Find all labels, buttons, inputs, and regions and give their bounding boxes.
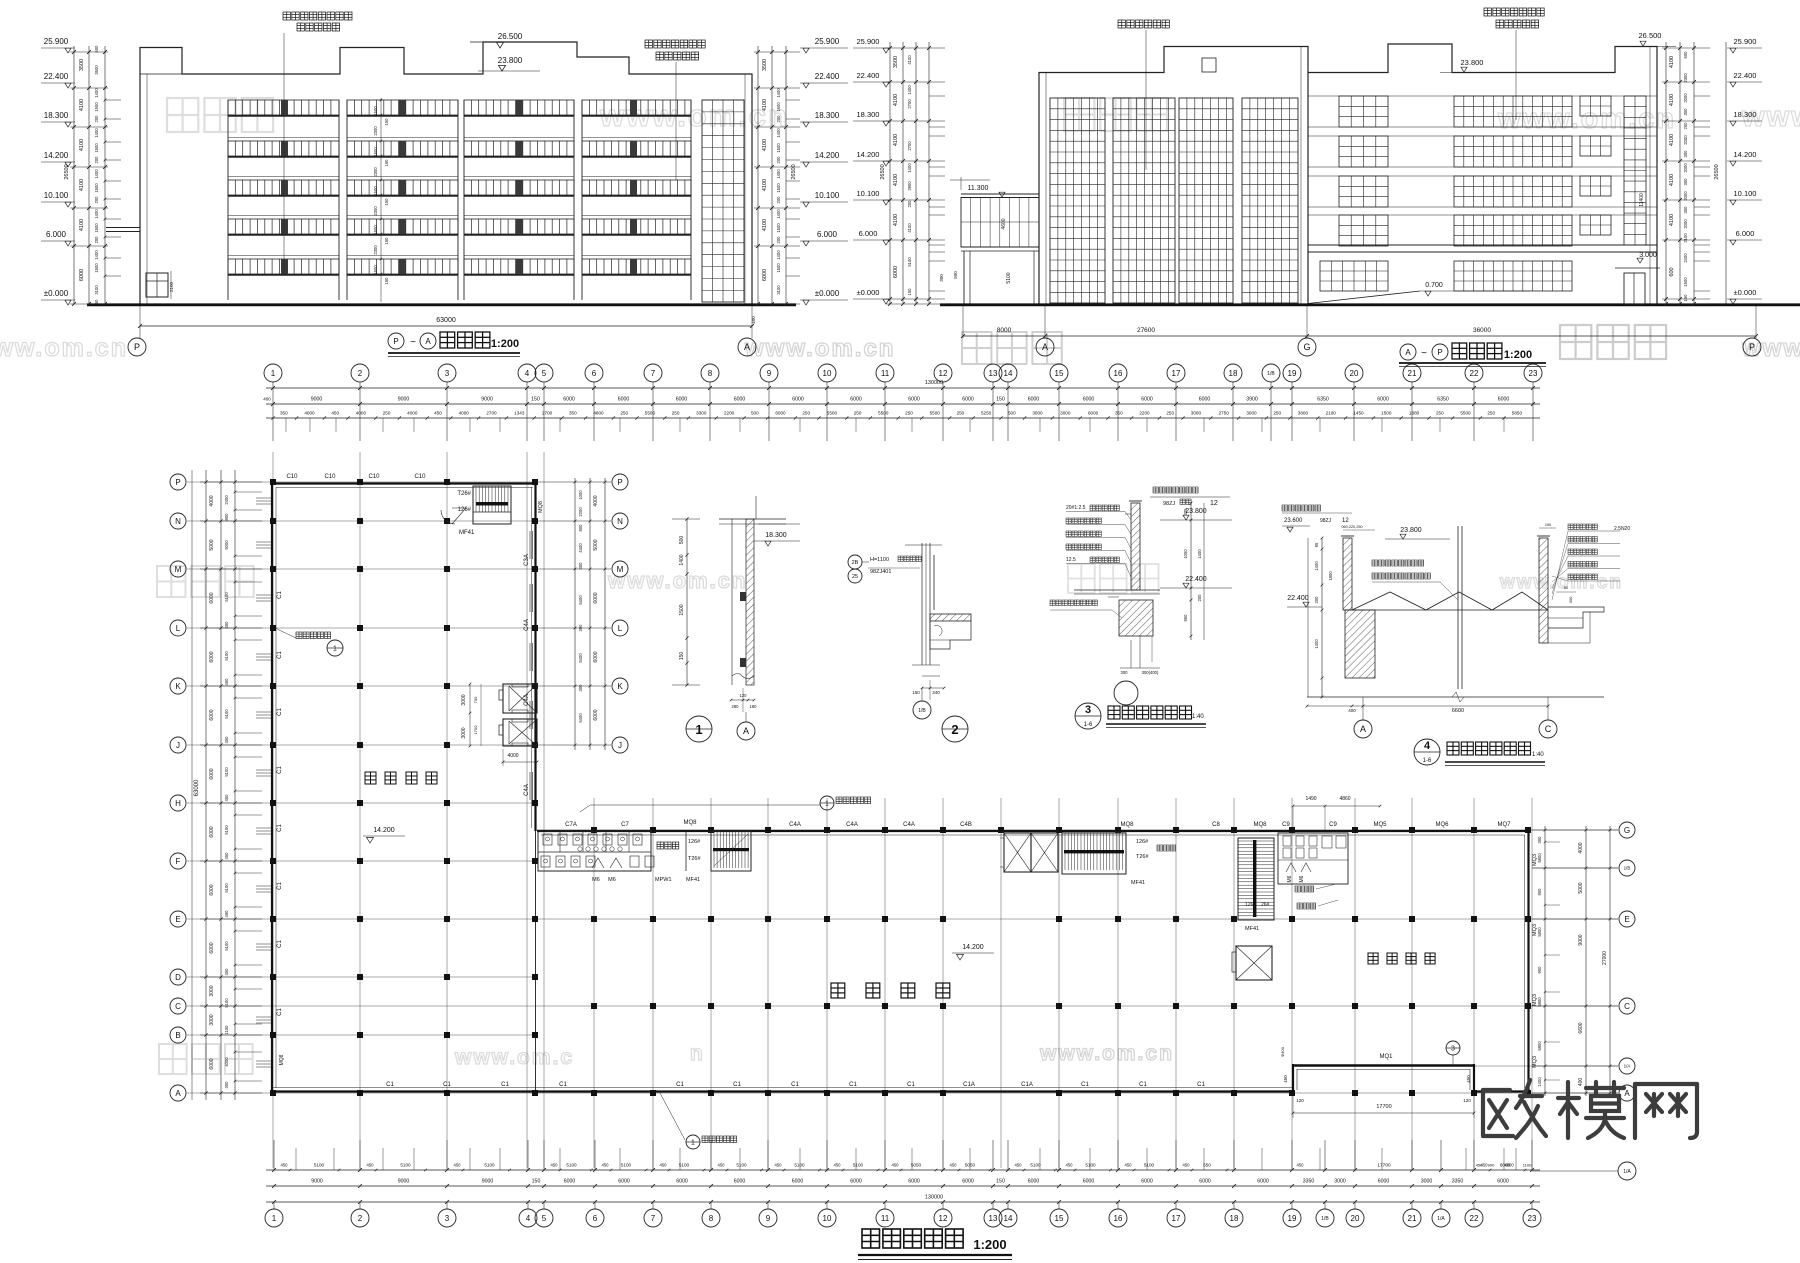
svg-text:280: 280 (732, 704, 740, 709)
svg-text:C9: C9 (1282, 822, 1290, 828)
svg-text:6000: 6000 (676, 397, 688, 403)
svg-text:150: 150 (384, 198, 389, 206)
svg-text:450: 450 (602, 1163, 610, 1168)
plan axis horizontal lines left wing (187, 481, 537, 483)
svg-text:450: 450 (224, 678, 229, 686)
svg-text:18: 18 (1229, 369, 1238, 378)
svg-text:5100: 5100 (736, 1163, 747, 1168)
svg-text:6000: 6000 (618, 397, 630, 403)
svg-text:Φ400: Φ400 (1280, 1046, 1285, 1057)
svg-text:5800: 5800 (1537, 1041, 1542, 1051)
production building text bottom wing left (831, 983, 845, 998)
svg-text:22: 22 (1470, 1214, 1479, 1223)
svg-text:3: 3 (1085, 704, 1091, 716)
svg-text:300: 300 (1683, 178, 1688, 186)
svg-text:23.800: 23.800 (1461, 58, 1484, 67)
plan axis row G (537, 829, 1618, 831)
svg-text:250: 250 (905, 411, 913, 416)
svg-text:6: 6 (593, 1214, 598, 1223)
svg-text:C1: C1 (1081, 1082, 1089, 1088)
svg-text:25.900: 25.900 (815, 37, 840, 46)
svg-text:11: 11 (881, 1214, 890, 1223)
svg-text:6000: 6000 (734, 397, 746, 403)
left wing right-side mini dim stack (574, 478, 576, 750)
svg-text:A: A (425, 337, 431, 346)
svg-text:1500: 1500 (776, 183, 781, 193)
detail 4 right wall (1539, 538, 1548, 643)
svg-text:J: J (176, 741, 180, 750)
svg-text:MQ3: MQ3 (1532, 924, 1538, 936)
svg-text:1400: 1400 (94, 209, 99, 219)
svg-text:www.om.cn: www.om.cn (744, 335, 895, 362)
detail 3 title (1075, 703, 1101, 729)
svg-text:3000: 3000 (1421, 1179, 1433, 1185)
svg-text:10.100: 10.100 (857, 189, 880, 198)
svg-text:10.100: 10.100 (1734, 189, 1757, 198)
svg-text:C1: C1 (849, 1082, 857, 1088)
svg-text:C: C (1545, 724, 1552, 734)
svg-text:4100: 4100 (893, 214, 899, 226)
svg-text:700: 700 (473, 696, 478, 703)
svg-text:18: 18 (1230, 1214, 1239, 1223)
svg-text:D: D (175, 973, 181, 982)
svg-text:C10: C10 (368, 474, 380, 480)
axis circle A right elevation (1036, 338, 1054, 356)
svg-text:5100: 5100 (484, 1163, 495, 1168)
svg-text:6000: 6000 (593, 592, 599, 603)
svg-text:6000: 6000 (792, 397, 804, 403)
svg-text:2200: 2200 (578, 507, 583, 517)
svg-text:MPW1: MPW1 (655, 877, 672, 883)
svg-text:3000: 3000 (1191, 411, 1202, 416)
stair right of toilets (711, 831, 751, 871)
axis 1/A circle far right bottom (1532, 1170, 1618, 1172)
svg-text:2B: 2B (852, 560, 859, 566)
svg-text:5500: 5500 (1460, 411, 1471, 416)
svg-text:4100: 4100 (762, 219, 768, 231)
svg-text:1400: 1400 (1197, 549, 1202, 559)
svg-text:400: 400 (1348, 708, 1356, 713)
svg-text:36000: 36000 (1473, 327, 1491, 334)
right elevation A~P curtain-wall tower outline (1039, 47, 1308, 305)
svg-text:500: 500 (1008, 411, 1016, 416)
plan left axis circles (170, 474, 186, 490)
svg-text:K: K (175, 682, 181, 691)
svg-text:150: 150 (531, 397, 540, 403)
svg-text:9000: 9000 (398, 1179, 410, 1185)
svg-text:9: 9 (767, 369, 772, 378)
svg-text:25.900: 25.900 (857, 37, 880, 46)
svg-text:5100: 5100 (566, 1163, 577, 1168)
svg-text:1400: 1400 (1314, 561, 1319, 571)
svg-text:6.000: 6.000 (817, 230, 838, 239)
svg-text:150: 150 (912, 690, 920, 695)
svg-text:C4B: C4B (960, 822, 972, 828)
svg-text:MF41: MF41 (1131, 880, 1145, 886)
svg-text:2200: 2200 (724, 411, 735, 416)
svg-text:C1: C1 (559, 1082, 567, 1088)
svg-text:9000: 9000 (481, 397, 493, 403)
wall inner face lines plan (275, 487, 277, 1088)
svg-text:1:200: 1:200 (491, 338, 519, 350)
right building ground floor windows (1320, 261, 1388, 291)
svg-text:5500: 5500 (827, 411, 838, 416)
row A south wall west segment (272, 1090, 1294, 1092)
svg-text:1400: 1400 (907, 163, 912, 173)
svg-text:P: P (175, 478, 180, 487)
svg-text:C7A: C7A (565, 822, 577, 828)
svg-text:5400: 5400 (578, 713, 583, 723)
svg-text:1: 1 (271, 369, 276, 378)
svg-text:6000: 6000 (775, 411, 786, 416)
svg-text:3500: 3500 (94, 65, 99, 75)
svg-text:18.300: 18.300 (815, 111, 840, 120)
svg-text:MQ8: MQ8 (538, 501, 544, 513)
svg-text:C1: C1 (1139, 1082, 1147, 1088)
svg-text:98ZJ: 98ZJ (1163, 501, 1175, 507)
plan title 4th floor plan 1:200 (862, 1229, 880, 1248)
svg-text:6000: 6000 (1199, 397, 1211, 403)
svg-text:11: 11 (881, 369, 890, 378)
svg-text:4100: 4100 (907, 223, 912, 233)
svg-text:900: 900 (1537, 888, 1542, 896)
svg-text:200: 200 (94, 115, 99, 123)
svg-text:21: 21 (1408, 369, 1417, 378)
svg-text:26#: 26# (1261, 902, 1270, 908)
svg-text:1500: 1500 (776, 223, 781, 233)
svg-text:300: 300 (578, 684, 583, 692)
svg-text:5100: 5100 (224, 998, 229, 1008)
svg-text:6000: 6000 (209, 651, 215, 662)
svg-text:300: 300 (578, 624, 583, 632)
svg-text:1400: 1400 (94, 169, 99, 179)
svg-text:6000: 6000 (1083, 397, 1095, 403)
svg-text:120: 120 (740, 693, 748, 698)
svg-text:180: 180 (750, 704, 758, 709)
svg-text:3000: 3000 (209, 985, 215, 996)
svg-text:M6: M6 (592, 877, 600, 883)
title A~P elevation 1:200 (1400, 344, 1416, 360)
svg-text:3000: 3000 (1334, 1179, 1346, 1185)
svg-text:150: 150 (996, 397, 1005, 403)
svg-text:C1: C1 (277, 708, 283, 716)
svg-text:C1: C1 (386, 1082, 394, 1088)
svg-text:450: 450 (1297, 1163, 1305, 1168)
left elevation bottom dimension 63000 (139, 306, 141, 338)
svg-text:3900: 3900 (1246, 397, 1258, 403)
svg-text:6000: 6000 (1028, 397, 1040, 403)
svg-text:C1: C1 (733, 1082, 741, 1088)
svg-text:5000: 5000 (224, 540, 229, 550)
svg-text:3: 3 (445, 369, 450, 378)
svg-text:6000: 6000 (79, 269, 85, 281)
svg-text:1500: 1500 (373, 106, 378, 116)
svg-text:450: 450 (834, 1163, 842, 1168)
svg-text:2700: 2700 (542, 411, 553, 416)
svg-text:250: 250 (672, 411, 680, 416)
svg-text:1-6: 1-6 (1084, 722, 1093, 728)
room 126 with doors (710, 831, 712, 871)
svg-text:800: 800 (578, 524, 583, 532)
right side dim stack bottom wing (1544, 826, 1546, 1096)
svg-text:C4A: C4A (903, 822, 915, 828)
svg-text:19: 19 (1288, 1214, 1297, 1223)
svg-text:200: 200 (94, 196, 99, 204)
axis circle P left elevation (128, 338, 146, 356)
svg-text:6000: 6000 (893, 266, 899, 278)
svg-text:C7: C7 (621, 822, 629, 828)
svg-text:4100: 4100 (79, 139, 85, 151)
ramp 0.700 (1308, 291, 1420, 304)
svg-text:5100: 5100 (224, 592, 229, 602)
svg-text:22.400: 22.400 (815, 72, 840, 81)
svg-text:A: A (743, 726, 749, 736)
axis circle A left elevation (738, 338, 756, 356)
svg-text:300: 300 (1568, 596, 1573, 603)
svg-text:1500: 1500 (94, 263, 99, 273)
svg-text:6.000: 6.000 (859, 229, 878, 238)
svg-text:6000: 6000 (618, 1179, 630, 1185)
svg-text:340: 340 (932, 690, 940, 695)
svg-text:10.100: 10.100 (44, 191, 69, 200)
svg-text:1500: 1500 (94, 223, 99, 233)
svg-text:4100: 4100 (893, 134, 899, 146)
svg-text:M: M (617, 565, 624, 574)
detail 3 parapet 1 (1153, 487, 1159, 493)
svg-text:200: 200 (1314, 596, 1319, 604)
svg-text:2: 2 (358, 369, 363, 378)
svg-text:1:200: 1:200 (973, 1237, 1006, 1252)
svg-text:350: 350 (280, 411, 288, 416)
svg-text:3000: 3000 (1032, 411, 1043, 416)
svg-text:1/B: 1/B (1267, 371, 1275, 377)
svg-text:400: 400 (1578, 1078, 1584, 1087)
stair C (right cluster) (1238, 838, 1274, 920)
bottom grid tick tails up (273, 1140, 275, 1170)
left elevation inner face lines (146, 74, 148, 304)
svg-text:27600: 27600 (1137, 327, 1155, 334)
svg-text:5850: 5850 (1512, 411, 1523, 416)
left elevation ground line (87, 303, 796, 306)
svg-text:1343: 1343 (514, 411, 525, 416)
svg-text:23.800: 23.800 (498, 56, 523, 65)
svg-text:4000: 4000 (356, 411, 367, 416)
svg-text:±0.000: ±0.000 (44, 289, 69, 298)
svg-text:C3A: C3A (524, 554, 530, 566)
right elevation glass panels (1050, 98, 1105, 303)
svg-text:1500: 1500 (94, 102, 99, 112)
left wing outer walls (271, 482, 273, 1093)
svg-text:~: ~ (1421, 348, 1427, 359)
label blue coated glass (1118, 20, 1125, 28)
svg-text:14.200: 14.200 (815, 151, 840, 160)
svg-text:5100: 5100 (224, 709, 229, 719)
top grid tick tails (272, 418, 274, 441)
svg-text:1500: 1500 (776, 102, 781, 112)
detail 1 wall section (719, 518, 786, 520)
svg-text:400: 400 (751, 316, 756, 324)
svg-text:450: 450 (660, 1163, 668, 1168)
svg-text:2000: 2000 (1683, 135, 1688, 145)
svg-text:1100: 1100 (1523, 1163, 1532, 1168)
svg-text:G: G (1624, 826, 1630, 835)
svg-text:5100: 5100 (400, 1163, 411, 1168)
svg-text:20: 20 (1351, 1214, 1360, 1223)
svg-text:200: 200 (94, 156, 99, 164)
svg-text:250: 250 (1166, 411, 1174, 416)
svg-text:450: 450 (331, 411, 339, 416)
axis circle P right elevation (1743, 338, 1761, 356)
svg-text:450: 450 (281, 1163, 289, 1168)
svg-text:9000: 9000 (311, 397, 323, 403)
svg-text:22.400: 22.400 (857, 71, 880, 80)
svg-text:17700: 17700 (1376, 1104, 1391, 1110)
svg-text:450: 450 (1066, 1163, 1074, 1168)
svg-text:C4A: C4A (524, 784, 530, 796)
svg-text:C1: C1 (791, 1082, 799, 1088)
svg-text:3100: 3100 (94, 285, 99, 295)
svg-text:1500: 1500 (373, 265, 378, 275)
svg-text:3500: 3500 (762, 59, 768, 71)
svg-text:4: 4 (525, 369, 530, 378)
svg-text:5100: 5100 (1144, 1163, 1155, 1168)
svg-text:16: 16 (1114, 1214, 1123, 1223)
svg-text:6000: 6000 (209, 826, 215, 837)
svg-text:25.900: 25.900 (44, 37, 69, 46)
svg-text:250: 250 (957, 411, 965, 416)
svg-text:A: A (1360, 724, 1366, 734)
svg-text:1700: 1700 (473, 725, 478, 735)
production building text bottom wing right (1368, 953, 1378, 964)
svg-text:200: 200 (907, 200, 912, 208)
svg-text:15: 15 (1055, 369, 1064, 378)
svg-text:3000: 3000 (1060, 411, 1071, 416)
svg-text:2300: 2300 (373, 126, 378, 136)
svg-text:5100: 5100 (621, 1163, 632, 1168)
svg-text:1450: 1450 (1353, 411, 1364, 416)
svg-text:26.500: 26.500 (498, 32, 523, 41)
svg-text:±0.000: ±0.000 (815, 289, 840, 298)
svg-text:14.200: 14.200 (1734, 150, 1757, 159)
svg-text:6000: 6000 (1028, 1179, 1040, 1185)
svg-text:6000: 6000 (209, 1058, 215, 1069)
svg-text:~: ~ (410, 337, 416, 348)
svg-text:4: 4 (1424, 740, 1431, 752)
svg-text:2700: 2700 (907, 99, 912, 109)
svg-text:N: N (175, 517, 181, 526)
svg-text:1: 1 (333, 646, 337, 653)
svg-text:300: 300 (578, 562, 583, 570)
svg-text:MQ8: MQ8 (279, 1054, 285, 1065)
svg-text:1/A: 1/A (1437, 1216, 1445, 1222)
svg-text:450: 450 (224, 621, 229, 629)
svg-text:150: 150 (907, 288, 912, 296)
svg-text:6000: 6000 (762, 269, 768, 281)
svg-text:300: 300 (939, 274, 944, 282)
svg-text:C1: C1 (277, 591, 283, 599)
right toilets C9 (1278, 833, 1348, 884)
svg-text:200: 200 (776, 156, 781, 164)
svg-text:126#: 126# (1245, 902, 1256, 908)
svg-text:MQ8: MQ8 (1120, 822, 1134, 828)
svg-text:16: 16 (1114, 369, 1123, 378)
bottom grid dimension lines (266, 1169, 1540, 1171)
svg-text:300: 300 (1683, 150, 1688, 158)
svg-text:5100: 5100 (314, 1163, 325, 1168)
stair north-east of left wing (473, 486, 511, 524)
svg-text:1500: 1500 (94, 143, 99, 153)
svg-text:MQ6: MQ6 (1435, 822, 1449, 828)
svg-text:4000: 4000 (224, 1057, 229, 1067)
svg-text:5500: 5500 (930, 411, 941, 416)
svg-text:C10: C10 (324, 474, 336, 480)
svg-text:9: 9 (766, 1214, 771, 1223)
svg-text:25.900: 25.900 (1734, 37, 1757, 46)
svg-text:M6: M6 (1299, 875, 1305, 882)
svg-text:6000: 6000 (962, 1179, 974, 1185)
svg-text:300: 300 (224, 1081, 229, 1089)
svg-text:1500: 1500 (776, 143, 781, 153)
svg-text:95: 95 (1314, 542, 1319, 547)
svg-text:22: 22 (1470, 369, 1479, 378)
svg-text:P: P (1437, 348, 1442, 357)
svg-text:1500: 1500 (373, 147, 378, 157)
svg-text:12: 12 (1342, 518, 1349, 524)
window detail callout above wing (590, 804, 820, 806)
svg-text:5100: 5100 (224, 767, 229, 777)
svg-text:50: 50 (1564, 585, 1569, 590)
svg-text:126#: 126# (1136, 839, 1149, 845)
svg-text:C: C (175, 1002, 181, 1011)
svg-text:4000: 4000 (407, 411, 418, 416)
svg-text:17700: 17700 (1377, 1163, 1391, 1169)
window detail callout in left wing (275, 628, 296, 638)
svg-text:M6: M6 (1287, 875, 1293, 882)
svg-text:26500: 26500 (1714, 164, 1720, 179)
svg-text:2400: 2400 (1683, 253, 1688, 263)
svg-text:150: 150 (679, 652, 685, 661)
svg-text:N: N (617, 517, 623, 526)
svg-text:1500: 1500 (373, 225, 378, 235)
svg-text:8000: 8000 (997, 327, 1012, 334)
svg-text:1:40: 1:40 (1532, 752, 1544, 758)
detail 4 title (1414, 739, 1440, 765)
svg-text:C1: C1 (277, 882, 283, 890)
svg-text:4860: 4860 (1339, 796, 1350, 802)
bottom axis circles 1-23 (265, 1209, 283, 1227)
svg-text:4800: 4800 (593, 411, 604, 416)
svg-text:MF41: MF41 (459, 530, 475, 536)
svg-text:450: 450 (454, 1163, 462, 1168)
svg-text:5100: 5100 (794, 1163, 805, 1168)
svg-text:F: F (176, 857, 181, 866)
svg-text:250: 250 (1436, 411, 1444, 416)
svg-text:6.000: 6.000 (1736, 229, 1755, 238)
svg-text:www.om.cn: www.om.cn (1039, 1042, 1174, 1065)
svg-text:150: 150 (94, 299, 99, 307)
svg-text:1400: 1400 (776, 209, 781, 219)
svg-text:250: 250 (620, 411, 628, 416)
svg-text:13: 13 (989, 369, 998, 378)
svg-text:5: 5 (542, 1214, 547, 1223)
svg-text:www.om.cn: www.om.cn (607, 568, 747, 593)
svg-text:4100: 4100 (893, 174, 899, 186)
label white tile wall right (1484, 8, 1491, 16)
svg-text:1500: 1500 (1381, 411, 1392, 416)
svg-text:6000: 6000 (593, 709, 599, 720)
svg-text:4000: 4000 (1504, 1163, 1514, 1168)
svg-text:150: 150 (1545, 523, 1551, 527)
